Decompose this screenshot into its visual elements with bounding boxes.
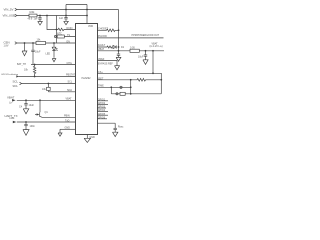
svg-text:49.9: 49.9 — [28, 18, 33, 21]
node battery label — [150, 42, 163, 48]
node junction VBAT x40 — [39, 99, 41, 101]
svg-text:(to 4.2V Li+): (to 4.2V Li+) — [150, 45, 163, 48]
svg-text:VBAT: VBAT — [66, 98, 73, 101]
ground below row60.5 — [115, 61, 120, 70]
svg-text:SCL: SCL — [13, 80, 19, 84]
ground below C1 — [38, 19, 43, 25]
thermistor box on row 36.5 — [54, 32, 75, 38]
node VIN_USB label — [3, 14, 17, 18]
wire right row 30.3 with resistor R5 — [97, 27, 119, 31]
ground below C3 — [64, 19, 69, 25]
node junction x118.5 row50.8 — [118, 50, 120, 52]
LED cathode arrow to row — [52, 59, 56, 62]
svg-text:VIN_USB: VIN_USB — [3, 14, 15, 18]
wire right stub 108 — [97, 106, 106, 109]
svg-text:ISL6292: ISL6292 — [82, 77, 92, 80]
node junction x66 rail1 — [65, 9, 67, 11]
resistor R3 box on row 43 — [36, 39, 46, 45]
svg-text:SDA: SDA — [67, 89, 72, 92]
ground below U1 — [84, 135, 95, 143]
node TXD label — [4, 114, 17, 123]
wire right row 87.3 — [97, 85, 131, 89]
wire right row 73.3 loop — [97, 71, 161, 94]
node junction x130.7 row93.8 — [130, 93, 132, 95]
svg-text:GPIO/Pushbutton: GPIO/Pushbutton — [1, 73, 19, 76]
node junction x130.7 row79.8 — [130, 79, 132, 81]
node junction x34.6 row64.5 — [34, 64, 36, 66]
ground below C5 — [23, 126, 29, 136]
wire top segment — [66, 4, 87, 6]
node junction x118.5 row30.3 — [118, 29, 120, 31]
wire rail y122 — [17, 119, 75, 122]
capacitor C6 — [138, 51, 147, 59]
node junction row43 x54 — [53, 42, 55, 44]
node junction x118.5 row47 — [118, 46, 120, 48]
wire row 43 EN — [4, 40, 76, 47]
svg-text:DCIN: DCIN — [67, 27, 73, 30]
svg-text:100n: 100n — [30, 125, 36, 128]
ground below C4 — [23, 105, 29, 114]
transistor Q1 — [35, 100, 48, 117]
svg-text:TS: TS — [67, 34, 70, 37]
node junction row73.3 x153 — [152, 72, 154, 74]
ground below C6 — [143, 56, 148, 64]
svg-text:10uF: 10uF — [35, 51, 41, 54]
svg-text:0.05: 0.05 — [130, 46, 135, 49]
svg-text:SCL: SCL — [68, 81, 73, 84]
node junction rail122 x26 — [25, 121, 27, 123]
svg-text:1.8V: 1.8V — [4, 44, 9, 47]
ground below x112.7 — [113, 132, 118, 136]
node junction x34.6 row76.5 — [34, 76, 36, 78]
wire row 129.3 to ground — [58, 127, 75, 137]
capacitor C5 — [24, 122, 35, 128]
wire right row 37.9 POWERGOOD — [97, 34, 164, 38]
node junction x56.5 row29 — [56, 29, 58, 31]
svg-text:GND: GND — [89, 136, 95, 139]
svg-text:PBSTAT: PBSTAT — [66, 74, 75, 77]
svg-text:BYPASS REF: BYPASS REF — [98, 62, 113, 65]
svg-text:1uF: 1uF — [34, 17, 39, 20]
wire right row 79.8 with resistor R7 — [97, 77, 161, 81]
LED D2 — [46, 43, 58, 58]
resistor R1 — [28, 11, 38, 20]
svg-text:VDD: VDD — [88, 25, 93, 28]
svg-text:GND: GND — [65, 127, 71, 130]
wire right stub 104.4 — [97, 102, 108, 105]
capacitor C4 — [19, 100, 34, 108]
svg-text:BAT_TH: BAT_TH — [17, 63, 26, 66]
op-amp U1 charger IC body — [76, 24, 98, 135]
wire rail1 corner down at right — [118, 10, 120, 31]
capacitor C3 — [59, 17, 68, 20]
resistor R4 vertical box — [42, 84, 50, 92]
node VBAT label — [7, 95, 16, 104]
svg-text:EN: EN — [67, 40, 71, 43]
wire right row 47 with diode D1 — [97, 44, 125, 49]
wire right row 50.8 to battery — [97, 48, 164, 51]
wire vertical x118.5 with capacitor C7 — [116, 30, 121, 61]
wire right row 60.5 VREF — [97, 58, 117, 61]
node junction rail2 x47 — [46, 15, 48, 17]
svg-text:10uF: 10uF — [138, 56, 144, 59]
svg-text:CHG: CHG — [67, 62, 72, 65]
node junction x161.3 row79.8 — [160, 79, 162, 81]
resistor R9 vertical zigzag — [24, 65, 36, 77]
svg-text:PPR/POWERGOOD OUT: PPR/POWERGOOD OUT — [132, 34, 160, 37]
wire vertical x153 — [152, 51, 154, 74]
node junction x56.5 row36 — [56, 36, 58, 38]
wire right stub 118.8 — [97, 116, 107, 119]
wire vertical x56.5 — [56, 16, 58, 44]
wire right stub 111.6 — [97, 109, 108, 112]
svg-text:Rosc: Rosc — [118, 126, 124, 129]
node junction rail2 x40 — [39, 15, 41, 17]
wire row 117.3 PBIN — [42, 115, 75, 118]
svg-text:115k: 115k — [9, 117, 15, 120]
wire rail2 VIN_USB — [17, 15, 87, 17]
svg-text:10uF: 10uF — [29, 104, 35, 107]
node junction row50.8 x145.5 — [145, 50, 147, 52]
wire branch row 93.8 — [111, 87, 161, 95]
wire right row 127 to ground — [97, 123, 124, 132]
wire vertical x47 down to row DCIN — [47, 16, 57, 30]
svg-text:1uF: 1uF — [59, 17, 64, 20]
wire row 76.5 PBSTAT — [1, 73, 75, 78]
capacitor C1 — [34, 16, 42, 21]
wire vertical x87 to IC top pin — [86, 5, 88, 24]
node VIN_5V label — [4, 8, 17, 12]
svg-text:VBAT: VBAT — [7, 95, 15, 99]
node junction x130.7 row87.3 — [130, 86, 132, 88]
svg-text:LED: LED — [46, 52, 51, 55]
wire row 64.5 status — [17, 62, 75, 66]
wire right stub 100.8 — [97, 98, 108, 101]
svg-text:100k: 100k — [29, 11, 35, 14]
node junction row50.8 x153 — [152, 50, 154, 52]
wire rail VBAT y100.3 — [17, 98, 75, 101]
ground stub below x24.5 — [22, 43, 27, 56]
wire vertical x66 — [65, 5, 67, 18]
svg-text:TxD: TxD — [65, 119, 70, 122]
node junction x87 rail1 — [86, 9, 88, 11]
wire right stub 115.2 — [97, 113, 108, 116]
node junction x66 rail2 — [65, 15, 67, 17]
svg-text:VIN_5V: VIN_5V — [4, 8, 14, 12]
node junction x48.4 row83.5 — [48, 83, 50, 85]
wire rail1 VIN_5V — [17, 9, 119, 11]
resistor R6 box on row 50.8 — [130, 46, 139, 52]
resistor R2 on row 29.5 — [57, 27, 76, 31]
wire row 91.8 SDA — [48, 89, 75, 92]
node junction VBAT x26 — [25, 99, 27, 101]
wire vertical x130.7 — [130, 80, 132, 94]
resistor R8 box on row 93.8 — [120, 92, 125, 95]
capacitor C2 — [31, 43, 41, 65]
node junction x87 rail2 — [86, 15, 88, 17]
svg-text:NTC: NTC — [57, 32, 62, 35]
svg-text:SDA: SDA — [13, 85, 18, 88]
node junction row43 x24.5 — [24, 42, 26, 44]
node junction row43 x33 — [32, 42, 34, 44]
svg-text:PBIN: PBIN — [64, 115, 70, 118]
wire row 83.5 SCL — [13, 80, 76, 85]
